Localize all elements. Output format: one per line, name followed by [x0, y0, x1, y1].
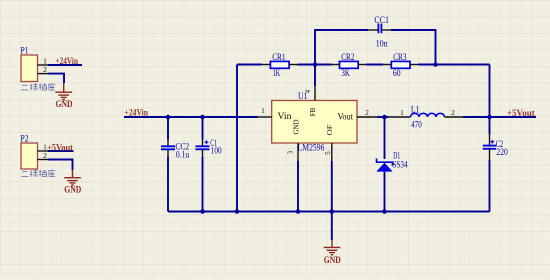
wire CR1 to FB node — [298, 64, 332, 66]
svg-text:60: 60 — [393, 69, 401, 79]
ground P2 — [64, 170, 81, 185]
svg-text:+5Vout: +5Vout — [507, 109, 536, 119]
wire CR2 to CR3 — [366, 64, 383, 66]
wire CR3 to output branch — [418, 64, 490, 66]
wire FB — [314, 65, 316, 87]
wire C2 lower — [489, 160, 491, 212]
svg-text:FB: FB — [308, 108, 317, 117]
wire U1 GND pin down — [297, 161, 299, 212]
svg-text:0.1u: 0.1u — [176, 151, 190, 161]
wire P2 pin2 to gnd — [48, 160, 73, 171]
svg-text:470: 470 — [411, 121, 422, 131]
P2 pin 1 — [38, 150, 49, 152]
connector P2 — [21, 143, 38, 169]
P2 pin 2 — [38, 159, 49, 161]
inductor L1 — [389, 116, 411, 118]
P2 comment text — [21, 170, 55, 177]
svg-text:GND: GND — [56, 100, 73, 110]
svg-text:CR3: CR3 — [393, 53, 407, 63]
wire P1 pin2 to gnd — [48, 74, 64, 84]
svg-text:3: 3 — [287, 150, 294, 154]
svg-text:P1: P1 — [21, 47, 29, 57]
junction CC2 top — [166, 115, 171, 120]
svg-text:1K: 1K — [273, 69, 281, 79]
svg-text:4: 4 — [305, 89, 312, 93]
junction ON/OFF bottom — [330, 209, 335, 214]
wire CC1 right vertical — [391, 30, 436, 65]
wire ground rail — [168, 211, 490, 213]
wire +24Vin rail — [124, 116, 258, 118]
U1 pin 5 ON/OFF — [331, 143, 333, 161]
svg-text:2: 2 — [43, 65, 47, 74]
svg-text:L1: L1 — [411, 105, 420, 115]
svg-text:5: 5 — [325, 151, 332, 155]
U1 pin 1 Vin — [258, 116, 272, 118]
diode D1 SS34 — [376, 159, 393, 166]
svg-text:3K: 3K — [341, 69, 350, 79]
U1 pin 3 GND — [297, 143, 299, 161]
junction C2 top — [487, 115, 492, 120]
svg-text:220: 220 — [496, 148, 508, 158]
svg-text:2: 2 — [451, 108, 455, 117]
svg-text:Vin: Vin — [278, 112, 292, 122]
junction D1 top — [382, 115, 387, 120]
connector P1 — [21, 55, 38, 82]
U1 pin 4 FB — [314, 86, 316, 101]
capacitor C1 — [202, 140, 204, 147]
wire feedback rail to output rail — [489, 65, 491, 118]
svg-text:+24Vin: +24Vin — [56, 57, 79, 67]
wire CC2 lower — [167, 157, 169, 212]
P1 pin 1 — [38, 64, 49, 66]
wire D1 lower — [384, 172, 386, 212]
resistor CR3 — [383, 64, 391, 66]
resistor CR1 — [262, 64, 270, 66]
svg-text:GND: GND — [291, 119, 300, 135]
svg-text:100: 100 — [211, 146, 222, 156]
svg-text:CR2: CR2 — [341, 53, 355, 63]
wire gnd stub — [331, 212, 333, 241]
junction CC1 right — [433, 62, 438, 67]
wire D1 upper — [384, 117, 386, 159]
svg-text:P2: P2 — [21, 135, 29, 145]
svg-text:CR1: CR1 — [272, 53, 286, 63]
junction C1 top — [200, 115, 205, 120]
capacitor CC2 — [167, 140, 169, 147]
wire C1 lower — [202, 157, 204, 212]
junction FB node — [313, 62, 318, 67]
svg-text:1: 1 — [261, 106, 265, 115]
P1 pin 2 — [38, 73, 49, 75]
junction CR1 branch bottom — [235, 209, 240, 214]
IC U1 LM2596 body — [272, 101, 357, 144]
svg-text:1: 1 — [400, 108, 404, 117]
U1 pin 2 Vout — [357, 116, 377, 118]
wire L1 to +5Vout — [463, 116, 536, 118]
wire fb rail segments — [237, 64, 262, 66]
svg-text:GND: GND — [324, 256, 341, 266]
svg-text:+5Vout: +5Vout — [47, 143, 74, 153]
svg-text:GND: GND — [64, 186, 81, 196]
wire C1 upper — [202, 117, 204, 140]
ground P1 — [55, 83, 72, 99]
wire P1 pin1 +24Vin — [48, 64, 82, 66]
svg-text:Vout: Vout — [338, 113, 354, 123]
svg-text:SS34: SS34 — [392, 159, 408, 169]
junction U1 GND bottom — [296, 209, 301, 214]
wire Vout to L1 — [377, 116, 389, 118]
resistor CR2 — [332, 64, 340, 66]
svg-text:CC1: CC1 — [374, 16, 389, 26]
wire C2 upper — [489, 117, 491, 134]
svg-text:2: 2 — [365, 108, 369, 117]
capacitor CC1 — [368, 29, 378, 31]
P1 comment text — [21, 83, 55, 90]
svg-text:LM2596: LM2596 — [298, 143, 325, 153]
wire P2 pin1 +5Vout — [48, 150, 74, 152]
wire CC2 upper — [167, 117, 169, 140]
wire U1 ON/OFF pin down — [331, 161, 333, 212]
svg-text:10n: 10n — [376, 39, 388, 49]
svg-text:OF: OF — [325, 125, 334, 136]
junction C1 bottom — [200, 209, 205, 214]
junction D1 bottom — [382, 209, 387, 214]
wire CR1 branch vertical — [236, 65, 238, 212]
capacitor C2 — [489, 134, 491, 146]
wire CC1 left vertical — [315, 30, 368, 65]
ground main — [324, 240, 341, 255]
